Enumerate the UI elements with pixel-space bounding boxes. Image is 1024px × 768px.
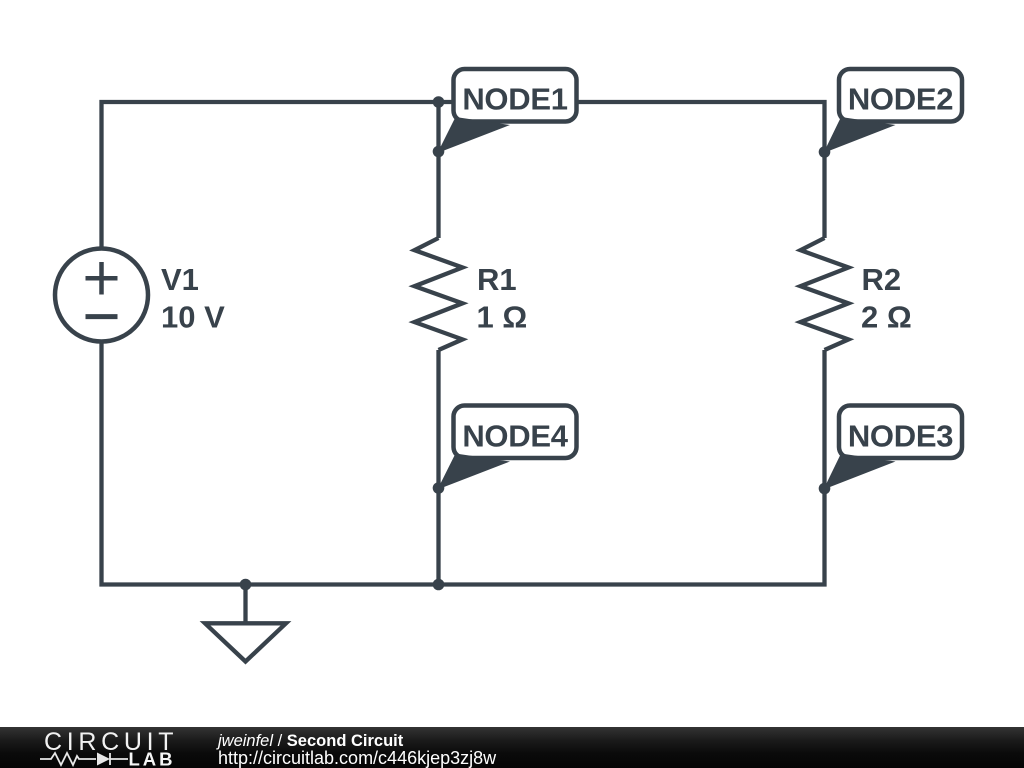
V1 minus sign [86,314,118,319]
svg-text:NODE1: NODE1 [462,82,567,117]
junction dot on top rail at middle branch [433,96,445,108]
junction dot on bottom rail at middle branch [433,579,445,591]
svg-text:http://circuitlab.com/c446kjep: http://circuitlab.com/c446kjep3zj8w [218,748,497,768]
svg-text:2 Ω: 2 Ω [861,300,912,335]
node flag NODE1 bubble [438,69,577,153]
svg-text:1 Ω: 1 Ω [477,300,528,335]
footer bar [0,727,1024,768]
svg-text:R2: R2 [862,262,902,297]
resistor R1 zigzag [415,238,463,350]
svg-text:NODE2: NODE2 [848,82,953,117]
wire bottom loop: V1 bottom down, bottom rail, right branch up to R2 bottom [102,342,825,585]
svg-text:R1: R1 [477,262,517,297]
node flag NODE4 bubble [438,406,577,490]
svg-text:NODE3: NODE3 [848,419,953,454]
node D NODE3 attach dot [819,483,831,495]
node flag NODE2 bubble [824,69,963,153]
svg-text:NODE4: NODE4 [462,419,568,454]
ground stem [243,585,247,624]
resistor R2 zigzag [801,238,849,350]
wire top loop: left branch up, top rail, right branch down to R2 [102,102,825,249]
CircuitLab logo diode triangle [97,753,110,766]
V1 plus sign [86,262,118,295]
node A NODE1 attach dot [433,146,445,158]
svg-text:10 V: 10 V [161,300,225,335]
node C NODE4 attach dot [433,482,445,494]
wire middle branch bottom: R1 down through NODE4 dot to bottom rail [436,350,440,585]
voltage source V1 circle [55,249,148,342]
svg-text:V1: V1 [161,262,199,297]
junction dot on bottom rail at ground [240,579,252,591]
svg-text:LAB: LAB [129,749,176,768]
node flag NODE3 bubble [824,406,963,490]
CircuitLab logo resistor-diode glyph [40,753,128,765]
wire middle branch top: NODE1 dot down to R1 [436,102,440,238]
ground triangle [205,623,286,661]
node B NODE2 attach dot [819,146,831,158]
